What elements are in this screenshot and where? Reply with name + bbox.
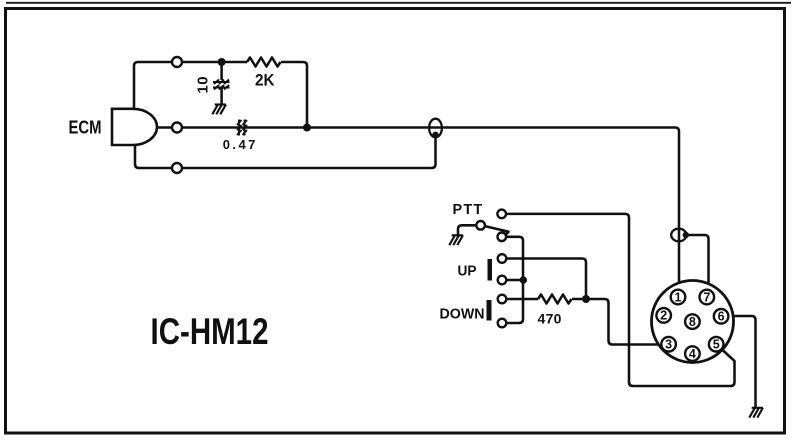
svg-text:0.47: 0.47 — [223, 137, 258, 152]
svg-text:6: 6 — [718, 310, 725, 324]
svg-text:ECM: ECM — [69, 118, 102, 138]
svg-text:PTT: PTT — [453, 202, 484, 218]
svg-text:2K: 2K — [255, 71, 275, 90]
svg-text:10: 10 — [195, 76, 212, 94]
svg-text:IC-HM12: IC-HM12 — [151, 310, 269, 352]
svg-text:470: 470 — [538, 311, 562, 327]
svg-text:4: 4 — [689, 347, 696, 361]
svg-text:1: 1 — [675, 290, 682, 304]
svg-text:7: 7 — [703, 290, 710, 304]
svg-text:5: 5 — [713, 338, 720, 352]
svg-text:3: 3 — [665, 338, 672, 352]
svg-text:8: 8 — [689, 315, 696, 329]
svg-text:UP: UP — [458, 264, 477, 280]
svg-text:DOWN: DOWN — [440, 307, 485, 323]
svg-text:2: 2 — [660, 309, 667, 323]
